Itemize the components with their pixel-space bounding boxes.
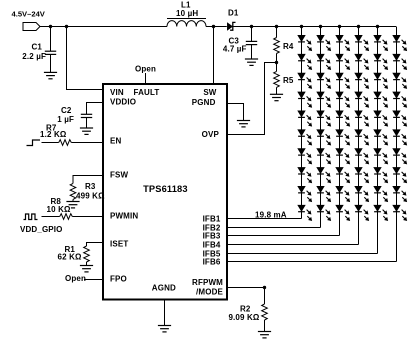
svg-text:10 µH: 10 µH (176, 9, 198, 18)
svg-text:FPO: FPO (110, 275, 127, 284)
svg-text:D1: D1 (228, 8, 239, 17)
svg-text:R4: R4 (283, 42, 294, 51)
svg-text:4.7 µF: 4.7 µF (223, 45, 247, 54)
svg-text:1.2 KΩ: 1.2 KΩ (40, 130, 67, 139)
svg-text:PGND: PGND (192, 98, 216, 107)
svg-text:FAULT: FAULT (134, 88, 160, 97)
svg-text:AGND: AGND (152, 283, 176, 292)
svg-text:EN: EN (110, 137, 121, 146)
svg-text:499 KΩ: 499 KΩ (76, 191, 105, 200)
svg-text:9.09 KΩ: 9.09 KΩ (228, 313, 259, 322)
svg-text:ISET: ISET (110, 239, 128, 248)
svg-text:R5: R5 (283, 76, 294, 85)
svg-text:VDD_GPIO: VDD_GPIO (20, 225, 63, 234)
svg-text:C1: C1 (31, 42, 42, 51)
svg-text:RFPWM: RFPWM (192, 278, 223, 287)
svg-text:Open: Open (65, 274, 86, 283)
svg-text:FSW: FSW (110, 170, 129, 179)
svg-text:IFB1: IFB1 (203, 215, 221, 224)
svg-text:19.8 mA: 19.8 mA (255, 210, 287, 219)
svg-text:/MODE: /MODE (196, 287, 223, 296)
svg-text:4.5V–24V: 4.5V–24V (12, 9, 46, 18)
svg-text:10 KΩ: 10 KΩ (47, 205, 71, 214)
svg-text:IFB4: IFB4 (203, 241, 221, 250)
svg-text:OVP: OVP (202, 130, 220, 139)
svg-text:VDDIO: VDDIO (110, 98, 136, 107)
svg-text:TPS61183: TPS61183 (143, 184, 188, 194)
svg-text:PWMIN: PWMIN (110, 211, 138, 220)
svg-text:62 KΩ: 62 KΩ (58, 252, 82, 261)
svg-text:C2: C2 (61, 106, 72, 115)
svg-text:R3: R3 (85, 182, 96, 191)
svg-text:1 µF: 1 µF (57, 115, 74, 124)
svg-text:SW: SW (203, 88, 216, 97)
svg-text:IFB3: IFB3 (203, 232, 221, 241)
svg-text:2.2 µF: 2.2 µF (22, 52, 46, 61)
svg-text:Open: Open (135, 65, 156, 74)
svg-text:IFB6: IFB6 (203, 258, 221, 267)
svg-text:VIN: VIN (110, 88, 124, 97)
